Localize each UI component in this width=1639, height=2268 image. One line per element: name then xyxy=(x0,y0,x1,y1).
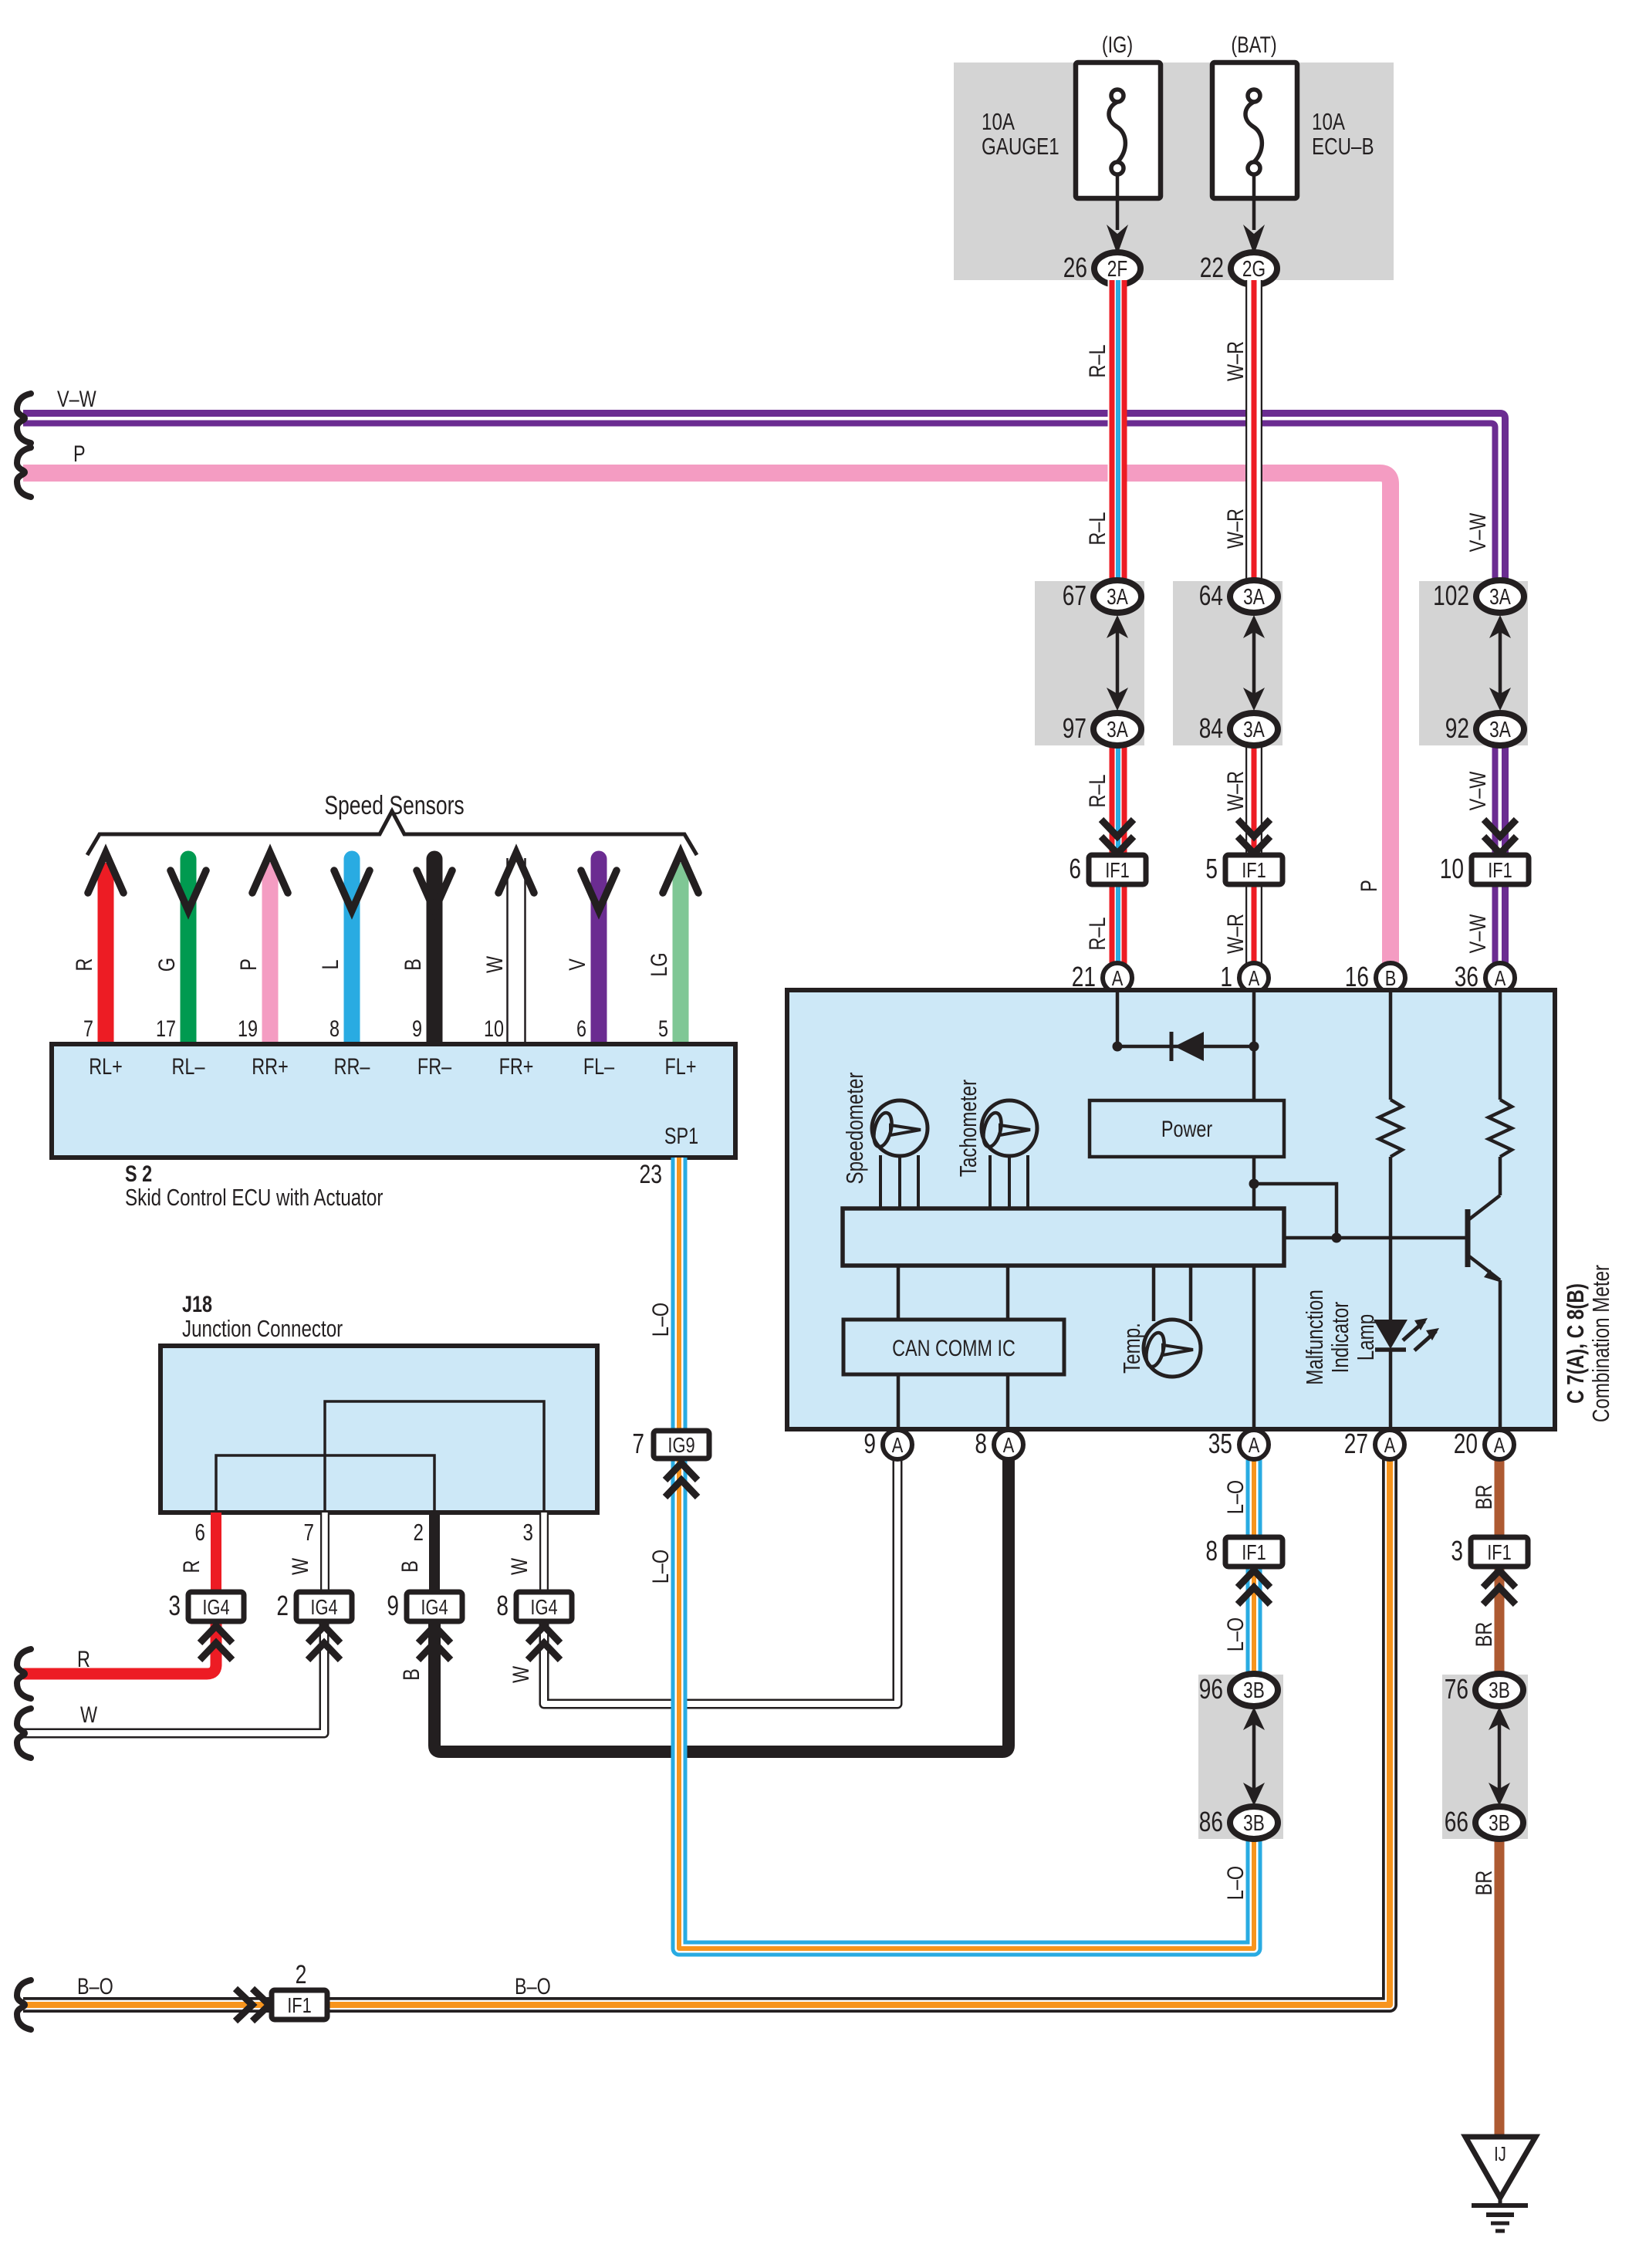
svg-text:B–O: B–O xyxy=(515,1973,551,1999)
svg-text:8: 8 xyxy=(329,1016,340,1041)
svg-text:3: 3 xyxy=(523,1519,533,1546)
svg-text:Power: Power xyxy=(1161,1116,1212,1141)
svg-text:3A: 3A xyxy=(1489,716,1511,742)
svg-text:R–L: R–L xyxy=(1084,775,1110,808)
svg-text:35: 35 xyxy=(1208,1428,1232,1459)
svg-text:B: B xyxy=(397,1560,422,1573)
svg-text:RL+: RL+ xyxy=(89,1053,123,1079)
svg-text:W: W xyxy=(506,1557,532,1575)
svg-text:B: B xyxy=(400,958,425,971)
svg-text:Combination Meter: Combination Meter xyxy=(1587,1265,1614,1422)
svg-text:7: 7 xyxy=(304,1519,314,1546)
svg-text:6: 6 xyxy=(195,1519,205,1546)
svg-text:IF1: IF1 xyxy=(287,1993,312,2017)
svg-text:IF1: IF1 xyxy=(1242,1540,1266,1564)
svg-text:Malfunction: Malfunction xyxy=(1301,1289,1328,1385)
svg-text:L–O: L–O xyxy=(1222,1480,1248,1514)
svg-text:A: A xyxy=(1003,1433,1015,1457)
svg-text:3B: 3B xyxy=(1243,1810,1265,1835)
svg-text:V–W: V–W xyxy=(1465,512,1490,552)
svg-text:10A: 10A xyxy=(982,108,1015,135)
svg-text:IF1: IF1 xyxy=(1488,858,1512,882)
svg-text:B: B xyxy=(1385,966,1397,990)
svg-text:L–O: L–O xyxy=(647,1303,673,1337)
svg-text:FL+: FL+ xyxy=(665,1053,697,1079)
svg-text:3B: 3B xyxy=(1243,1677,1265,1702)
svg-text:R: R xyxy=(77,1646,90,1671)
svg-text:9: 9 xyxy=(863,1428,876,1459)
svg-text:IG4: IG4 xyxy=(310,1595,337,1619)
svg-text:W–R: W–R xyxy=(1222,509,1248,549)
svg-text:GAUGE1: GAUGE1 xyxy=(982,133,1059,160)
svg-text:Skid Control ECU with Actuator: Skid Control ECU with Actuator xyxy=(125,1184,383,1211)
svg-text:10: 10 xyxy=(484,1016,504,1041)
svg-text:A: A xyxy=(1112,966,1124,990)
svg-text:Tachometer: Tachometer xyxy=(955,1080,982,1177)
svg-text:5: 5 xyxy=(658,1016,668,1041)
svg-text:RL–: RL– xyxy=(172,1053,205,1079)
svg-text:P: P xyxy=(73,441,86,466)
svg-text:(IG): (IG) xyxy=(1102,32,1133,57)
svg-text:3A: 3A xyxy=(1107,716,1128,742)
svg-text:20: 20 xyxy=(1454,1428,1478,1459)
svg-text:9: 9 xyxy=(387,1590,399,1621)
svg-text:R–L: R–L xyxy=(1084,345,1110,378)
svg-text:W: W xyxy=(287,1557,313,1575)
svg-text:84: 84 xyxy=(1199,713,1223,744)
svg-text:BR: BR xyxy=(1471,1871,1496,1895)
svg-text:IG4: IG4 xyxy=(202,1595,229,1619)
svg-text:Indicator: Indicator xyxy=(1326,1302,1353,1374)
svg-text:CAN COMM IC: CAN COMM IC xyxy=(892,1335,1016,1360)
svg-text:W–R: W–R xyxy=(1222,914,1248,954)
svg-text:W–R: W–R xyxy=(1222,341,1248,381)
svg-text:67: 67 xyxy=(1063,580,1086,611)
svg-text:A: A xyxy=(892,1433,904,1457)
svg-text:10: 10 xyxy=(1440,853,1464,884)
svg-text:2: 2 xyxy=(296,1960,307,1989)
svg-text:64: 64 xyxy=(1199,580,1223,611)
svg-text:9: 9 xyxy=(412,1016,422,1041)
svg-text:36: 36 xyxy=(1455,962,1478,992)
svg-text:5: 5 xyxy=(1205,853,1218,884)
svg-text:RR+: RR+ xyxy=(252,1053,288,1079)
svg-text:16: 16 xyxy=(1345,962,1369,992)
svg-text:3A: 3A xyxy=(1489,583,1511,609)
svg-text:IG4: IG4 xyxy=(530,1595,557,1619)
svg-text:IF1: IF1 xyxy=(1242,858,1266,882)
svg-text:S 2: S 2 xyxy=(125,1161,152,1186)
svg-text:2: 2 xyxy=(276,1590,289,1621)
svg-text:102: 102 xyxy=(1433,580,1469,611)
svg-text:8: 8 xyxy=(1205,1536,1218,1567)
svg-text:8: 8 xyxy=(496,1590,509,1621)
svg-text:R: R xyxy=(178,1560,204,1573)
svg-text:21: 21 xyxy=(1072,962,1096,992)
svg-text:L: L xyxy=(317,959,343,969)
svg-text:IG4: IG4 xyxy=(421,1595,448,1619)
svg-text:R: R xyxy=(71,958,96,972)
svg-text:W: W xyxy=(508,1665,533,1683)
svg-text:A: A xyxy=(1249,1433,1260,1457)
svg-text:A: A xyxy=(1495,966,1506,990)
svg-text:86: 86 xyxy=(1199,1807,1223,1837)
svg-text:W: W xyxy=(80,1702,98,1727)
svg-text:B–O: B–O xyxy=(77,1973,113,1999)
svg-text:C 7(A), C 8(B): C 7(A), C 8(B) xyxy=(1562,1283,1589,1404)
svg-text:3: 3 xyxy=(168,1590,181,1621)
svg-text:92: 92 xyxy=(1445,713,1469,744)
svg-text:IF1: IF1 xyxy=(1487,1540,1512,1564)
svg-text:(BAT): (BAT) xyxy=(1231,32,1276,57)
svg-text:26: 26 xyxy=(1063,252,1087,283)
svg-text:23: 23 xyxy=(639,1160,662,1189)
svg-text:76: 76 xyxy=(1445,1674,1468,1705)
svg-text:ECU–B: ECU–B xyxy=(1312,133,1374,160)
svg-text:10A: 10A xyxy=(1312,108,1345,135)
svg-text:Temp.: Temp. xyxy=(1118,1323,1145,1374)
svg-text:1: 1 xyxy=(1220,962,1232,992)
svg-text:V–W: V–W xyxy=(1465,771,1490,810)
svg-text:V–W: V–W xyxy=(57,386,96,411)
svg-text:6: 6 xyxy=(576,1016,586,1041)
svg-text:7: 7 xyxy=(632,1428,644,1459)
svg-text:IG9: IG9 xyxy=(667,1433,694,1457)
svg-text:V: V xyxy=(564,958,590,971)
svg-text:7: 7 xyxy=(83,1016,93,1041)
svg-text:2: 2 xyxy=(414,1519,424,1546)
svg-text:Lamp: Lamp xyxy=(1352,1314,1379,1360)
svg-text:P: P xyxy=(1356,880,1381,892)
svg-text:L–O: L–O xyxy=(1222,1617,1248,1651)
svg-text:6: 6 xyxy=(1069,853,1081,884)
svg-text:V–W: V–W xyxy=(1465,914,1490,953)
svg-text:IF1: IF1 xyxy=(1105,858,1130,882)
svg-text:P: P xyxy=(235,958,261,971)
svg-text:66: 66 xyxy=(1445,1807,1468,1837)
svg-text:R–L: R–L xyxy=(1084,918,1110,951)
svg-text:97: 97 xyxy=(1063,713,1086,744)
svg-text:R–L: R–L xyxy=(1084,512,1110,546)
svg-text:J18: J18 xyxy=(182,1291,212,1317)
svg-text:A: A xyxy=(1249,966,1260,990)
svg-text:FR–: FR– xyxy=(417,1053,451,1079)
svg-text:B: B xyxy=(398,1668,424,1681)
svg-text:2F: 2F xyxy=(1107,255,1127,281)
svg-text:3A: 3A xyxy=(1243,716,1265,742)
svg-text:3: 3 xyxy=(1451,1536,1463,1567)
svg-text:BR: BR xyxy=(1471,1622,1496,1647)
svg-text:L–O: L–O xyxy=(1222,1866,1248,1900)
svg-text:3B: 3B xyxy=(1489,1810,1510,1835)
svg-text:19: 19 xyxy=(238,1016,258,1041)
svg-text:17: 17 xyxy=(156,1016,176,1041)
svg-text:Junction Connector: Junction Connector xyxy=(182,1315,343,1342)
svg-text:2G: 2G xyxy=(1242,255,1266,281)
svg-text:3A: 3A xyxy=(1243,583,1265,609)
svg-text:8: 8 xyxy=(975,1428,987,1459)
svg-text:27: 27 xyxy=(1344,1428,1368,1459)
svg-text:FL–: FL– xyxy=(583,1053,614,1079)
svg-text:FR+: FR+ xyxy=(499,1053,534,1079)
svg-text:22: 22 xyxy=(1200,252,1224,283)
svg-text:3A: 3A xyxy=(1107,583,1128,609)
svg-text:A: A xyxy=(1494,1433,1506,1457)
svg-text:L–O: L–O xyxy=(647,1550,673,1584)
svg-text:RR–: RR– xyxy=(334,1053,370,1079)
svg-text:G: G xyxy=(154,958,179,972)
svg-text:SP1: SP1 xyxy=(664,1123,698,1148)
svg-text:A: A xyxy=(1384,1433,1396,1457)
svg-text:3B: 3B xyxy=(1489,1677,1510,1702)
svg-text:96: 96 xyxy=(1199,1674,1223,1705)
svg-text:LG: LG xyxy=(646,952,671,976)
svg-text:BR: BR xyxy=(1471,1485,1496,1509)
svg-text:W: W xyxy=(482,955,507,973)
svg-text:Speedometer: Speedometer xyxy=(841,1072,868,1184)
svg-text:IJ: IJ xyxy=(1494,2143,1506,2165)
svg-text:W–R: W–R xyxy=(1222,771,1248,811)
